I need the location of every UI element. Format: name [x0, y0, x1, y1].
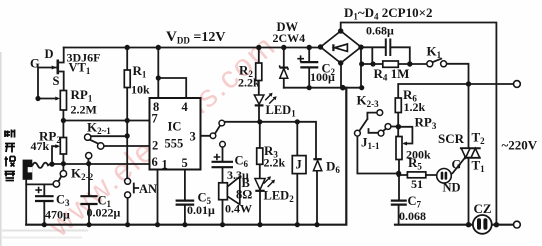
svg-text:C7: C7 [408, 194, 422, 210]
svg-text:5: 5 [182, 156, 188, 170]
svg-text:J1-1: J1-1 [361, 135, 380, 152]
svg-text:K2-2: K2-2 [71, 166, 94, 183]
svg-text:10k: 10k [131, 83, 150, 97]
svg-text:0.01μ: 0.01μ [187, 203, 215, 217]
svg-text:D: D [45, 47, 54, 61]
svg-text:R4 1M: R4 1M [374, 66, 410, 83]
svg-text:RP3: RP3 [415, 115, 437, 132]
svg-text:G: G [452, 158, 462, 172]
svg-text:C6: C6 [235, 154, 249, 170]
svg-text:0.4W: 0.4W [225, 202, 252, 216]
svg-text:K2~1: K2~1 [87, 120, 111, 137]
svg-text:7: 7 [152, 112, 158, 126]
svg-text:555: 555 [165, 137, 184, 151]
svg-text:D6: D6 [326, 159, 340, 176]
svg-text:CZ: CZ [474, 201, 492, 216]
svg-text:1: 1 [162, 158, 168, 172]
svg-text:~220V: ~220V [502, 138, 538, 153]
svg-text:T2: T2 [472, 130, 486, 147]
svg-text:3: 3 [190, 130, 196, 144]
svg-text:K1: K1 [427, 44, 442, 61]
svg-text:SCR: SCR [438, 131, 465, 146]
svg-text:IC: IC [168, 120, 182, 134]
svg-text:R1: R1 [133, 63, 147, 80]
svg-text:2.2k: 2.2k [238, 76, 260, 90]
svg-text:D1~D4 2CP10×2: D1~D4 2CP10×2 [344, 5, 433, 22]
svg-text:T1: T1 [472, 158, 486, 175]
svg-text:J: J [296, 158, 302, 172]
svg-text:8Ω: 8Ω [236, 188, 252, 202]
svg-text:0.68μ: 0.68μ [366, 24, 394, 38]
svg-text:ND: ND [443, 181, 461, 195]
svg-text:2.2M: 2.2M [71, 103, 97, 117]
svg-text:47k: 47k [31, 139, 50, 153]
svg-text:6: 6 [152, 155, 158, 169]
svg-text:100μ: 100μ [310, 70, 335, 84]
svg-text:RP1: RP1 [71, 87, 93, 104]
svg-text:LED2: LED2 [264, 189, 295, 205]
svg-text:2CW4: 2CW4 [273, 31, 306, 45]
svg-text:51: 51 [411, 177, 423, 191]
svg-text:VDD =12V: VDD =12V [166, 29, 225, 46]
svg-text:AN: AN [139, 182, 157, 196]
svg-text:2: 2 [152, 139, 158, 153]
svg-text:LED1: LED1 [266, 103, 297, 119]
svg-text:0.022μ: 0.022μ [87, 206, 121, 220]
svg-text:4: 4 [182, 100, 189, 114]
svg-text:2.2k: 2.2k [264, 156, 286, 170]
svg-text:G: G [30, 57, 40, 71]
svg-text:1.2k: 1.2k [404, 100, 426, 114]
svg-text:470μ: 470μ [45, 208, 70, 222]
svg-text:K2-3: K2-3 [357, 93, 380, 110]
svg-text:0.068: 0.068 [399, 209, 426, 223]
svg-text:S: S [53, 74, 60, 88]
